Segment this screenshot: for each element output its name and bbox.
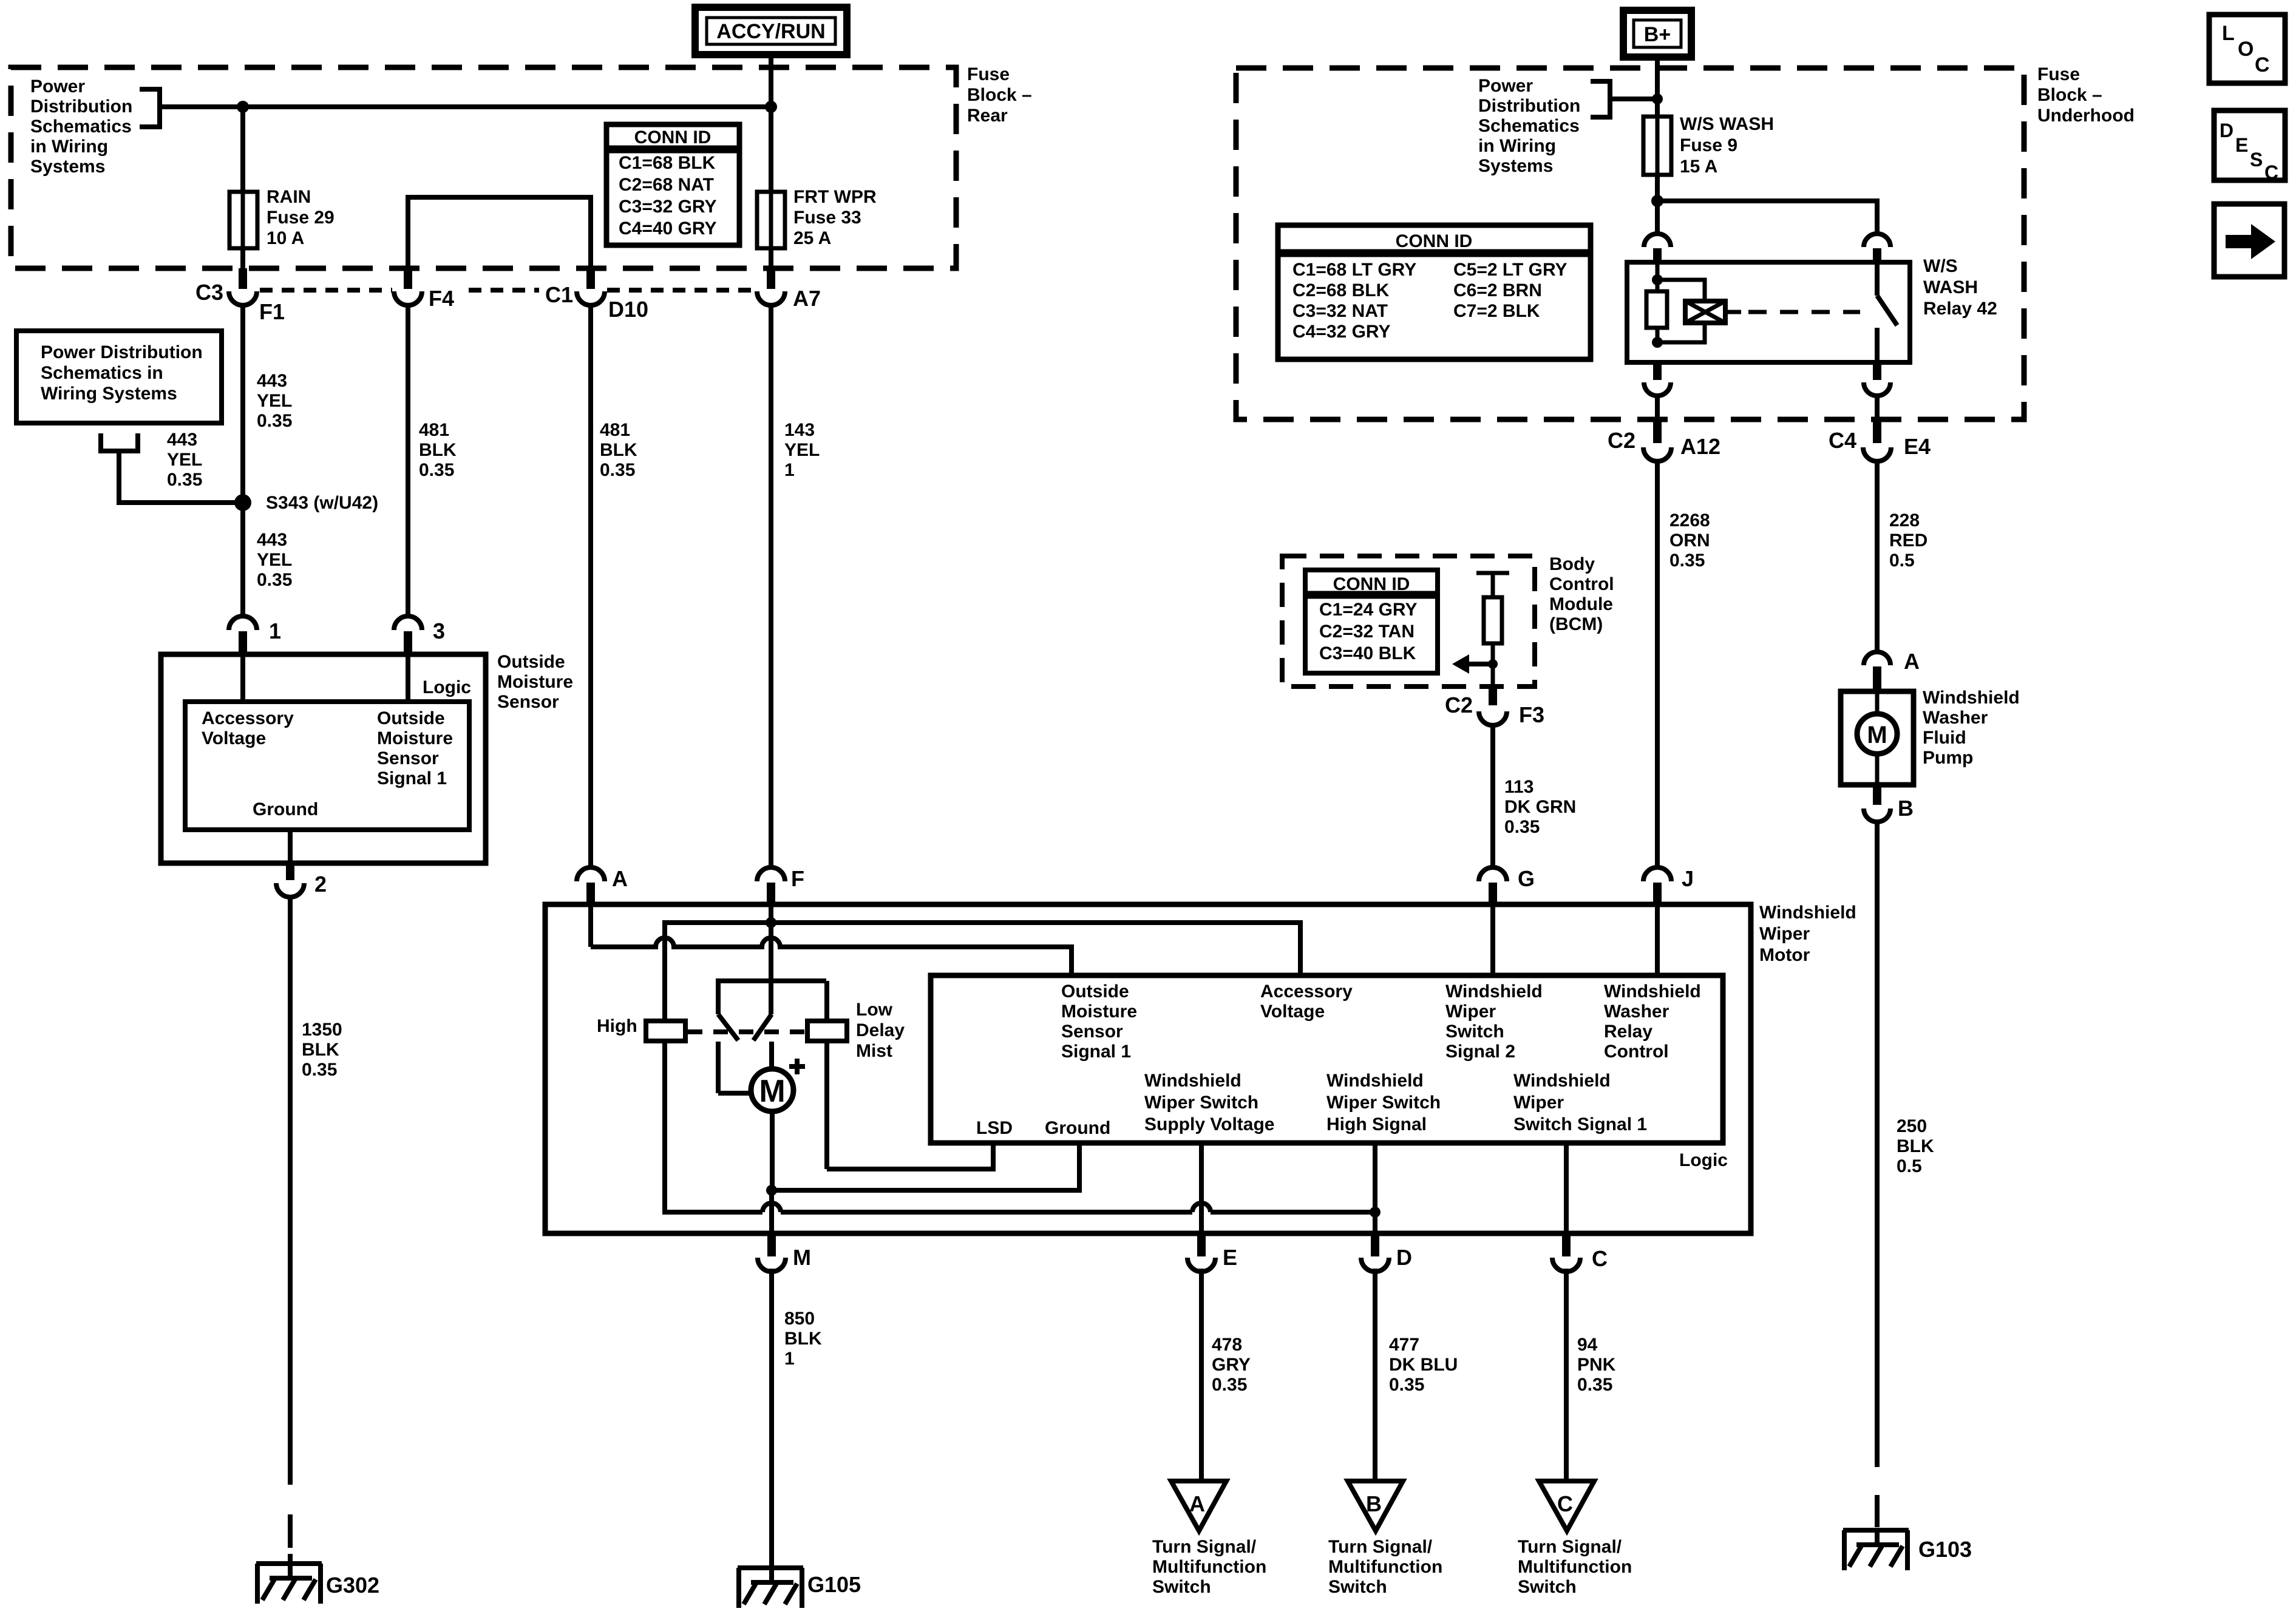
svg-text:Distribution: Distribution xyxy=(30,97,132,117)
svg-text:ORN: ORN xyxy=(1669,531,1710,551)
wire: F4 to sensor pin 3 (481 BLK) xyxy=(406,303,410,617)
svg-text:Sensor: Sensor xyxy=(497,692,559,712)
svg-text:B+: B+ xyxy=(1644,23,1671,46)
BCM internal arrow (to logic) xyxy=(1452,654,1493,674)
pin name: Ground (logic) xyxy=(1045,1118,1110,1138)
pin name: Ground (sensor) xyxy=(253,799,318,819)
svg-text:CONN ID: CONN ID xyxy=(1396,231,1473,251)
svg-text:YEL: YEL xyxy=(784,440,820,460)
svg-text:Pump: Pump xyxy=(1923,748,1973,768)
svg-text:Multifunction: Multifunction xyxy=(1152,1557,1266,1577)
wire: relay switch to C4 xyxy=(1864,362,1890,422)
wire: C4/E4 to washer pump (228 RED) xyxy=(1875,461,1880,652)
wire: C1/D10 to motor pin A (481 BLK) xyxy=(588,303,593,617)
label: Low Delay Mist xyxy=(856,1000,905,1061)
pin name: Windshield Wiper Switch High Signal xyxy=(1326,1071,1441,1134)
svg-text:High Signal: High Signal xyxy=(1326,1114,1427,1134)
svg-text:G302: G302 xyxy=(326,1573,379,1598)
pin name: Accessory Voltage (logic) xyxy=(1260,981,1353,1022)
junction: coil top xyxy=(1652,274,1663,285)
wire label 143 YEL 1 (A7) xyxy=(784,420,820,480)
fuse block underhood (dashed enclosure) xyxy=(1236,68,2024,419)
label: Turn Signal/Multifunction Switch (B) xyxy=(1328,1537,1442,1597)
junction: BCM sense xyxy=(1488,659,1498,669)
svg-text:2: 2 xyxy=(314,872,327,897)
wire: pin G to logic switch signal 2 xyxy=(1490,904,1495,975)
svg-text:Delay: Delay xyxy=(856,1020,905,1040)
connector C4/E4 xyxy=(1863,422,1891,461)
wire: switch signal 1 to pin C xyxy=(1564,1143,1569,1233)
svg-text:C7=2 BLK: C7=2 BLK xyxy=(1453,301,1540,321)
svg-text:Wiper: Wiper xyxy=(1445,1002,1496,1022)
svg-text:C4=40 GRY: C4=40 GRY xyxy=(619,219,716,239)
pin label B (pump) xyxy=(1898,796,1914,821)
svg-text:Voltage: Voltage xyxy=(202,728,266,748)
wire: B+ to fuse 9 xyxy=(1655,57,1660,117)
svg-text:WASH: WASH xyxy=(1923,277,1978,297)
svg-text:Wiper Switch: Wiper Switch xyxy=(1144,1093,1258,1113)
svg-text:Outside: Outside xyxy=(1061,981,1129,1002)
svg-text:BLK: BLK xyxy=(1897,1136,1934,1156)
connector pin A (washer pump) xyxy=(1864,652,1890,690)
pin name: Windshield Washer Relay Control xyxy=(1604,981,1701,1062)
svg-text:YEL: YEL xyxy=(257,391,292,411)
svg-text:Supply Voltage: Supply Voltage xyxy=(1144,1114,1274,1134)
svg-text:Moisture: Moisture xyxy=(377,728,453,748)
svg-text:C: C xyxy=(2255,53,2270,76)
svg-text:D: D xyxy=(2220,120,2233,141)
pin label F3 xyxy=(1519,702,1544,727)
pin label F1 xyxy=(259,299,285,324)
svg-text:Underhood: Underhood xyxy=(2037,106,2135,126)
wire: branch to relay switch side xyxy=(1657,201,1877,234)
svg-text:S343 (w/U42): S343 (w/U42) xyxy=(266,493,378,513)
nav box arrow xyxy=(2214,204,2284,277)
wire: pin E to turn signal switch (478 GRY) xyxy=(1199,1269,1204,1481)
label: Windshield Washer Fluid Pump xyxy=(1923,688,2020,768)
label: Body Control Module (BCM) xyxy=(1549,554,1614,634)
wire: low branch through resistor xyxy=(824,981,829,1169)
mechanical link (dashed) high-low xyxy=(688,1029,807,1034)
svg-text:478: 478 xyxy=(1212,1335,1242,1355)
svg-text:Wiring Systems: Wiring Systems xyxy=(41,384,177,404)
junction: B+ tap xyxy=(1652,93,1663,104)
fuse block rear (dashed enclosure) xyxy=(11,67,956,268)
wire label 1350 BLK 0.35 xyxy=(302,1020,342,1080)
wire: F to commutator xyxy=(769,923,773,1014)
connector pin 2 (moisture sensor ground) xyxy=(276,830,304,897)
connector line C1-A7 (dashed) xyxy=(607,288,755,293)
wire label 443 YEL 0.35 (upper) xyxy=(257,371,292,431)
svg-text:G: G xyxy=(1518,866,1535,891)
nav box LOC xyxy=(2209,15,2285,83)
svg-text:CONN ID: CONN ID xyxy=(1333,574,1410,594)
value label: RAIN Fuse 29 10 A xyxy=(267,187,335,248)
svg-text:Schematics: Schematics xyxy=(1478,116,1580,136)
svg-text:1: 1 xyxy=(269,619,281,643)
pin label D10 xyxy=(608,297,648,322)
wire label 443 YEL 0.35 (lower) xyxy=(257,530,292,590)
wire: jumper F4 to C1 inside fuse block xyxy=(408,197,591,271)
wire: LSD to low branch xyxy=(827,1143,993,1169)
junction: motor ground xyxy=(766,1185,777,1196)
junction: F wire / accessory voltage feed xyxy=(766,917,776,928)
svg-text:B: B xyxy=(1366,1491,1382,1516)
relay coil (solenoid) xyxy=(1657,280,1725,342)
svg-text:Wiper: Wiper xyxy=(1759,924,1810,944)
svg-text:Switch: Switch xyxy=(1328,1577,1387,1597)
svg-text:Outside: Outside xyxy=(497,652,565,672)
svg-text:Washer: Washer xyxy=(1604,1002,1669,1022)
svg-text:Sensor: Sensor xyxy=(1061,1022,1123,1042)
svg-text:Fuse: Fuse xyxy=(2037,64,2080,84)
label: Logic (sensor) xyxy=(423,677,471,697)
pin label A12 xyxy=(1680,434,1720,459)
svg-text:A12: A12 xyxy=(1680,434,1720,459)
wire: supply voltage to pin E xyxy=(1199,1143,1204,1233)
svg-text:C2: C2 xyxy=(1608,428,1635,453)
logic box (wiper motor) xyxy=(931,975,1723,1143)
svg-text:in Wiring: in Wiring xyxy=(1478,136,1556,156)
wire label 481 BLK 0.35 (F4) xyxy=(419,420,457,480)
svg-text:443: 443 xyxy=(257,371,287,391)
wire: F3 to motor pin G (113 DK GRN) xyxy=(1490,725,1495,868)
pin label M xyxy=(793,1245,811,1270)
svg-text:Turn Signal/: Turn Signal/ xyxy=(1518,1537,1622,1557)
svg-text:BLK: BLK xyxy=(419,440,457,460)
svg-text:W/S: W/S xyxy=(1923,256,1958,276)
svg-text:Switch: Switch xyxy=(1152,1577,1211,1597)
svg-text:F1: F1 xyxy=(259,299,285,324)
svg-text:443: 443 xyxy=(167,430,197,450)
svg-text:C3=40 BLK: C3=40 BLK xyxy=(1319,643,1416,663)
wire: ACCY/RUN to bus xyxy=(769,55,773,107)
svg-text:0.35: 0.35 xyxy=(1577,1375,1612,1395)
junction: fuse 33 tap xyxy=(765,101,777,113)
ground G302 xyxy=(256,1564,322,1604)
svg-text:443: 443 xyxy=(257,530,287,550)
label: Power Distribution Schematics in Wiring Systems (rear) xyxy=(30,76,132,177)
pin name: Outside Moisture Sensor Signal 1 (logic) xyxy=(1061,981,1137,1062)
junction: high signal / pin D xyxy=(1370,1207,1381,1218)
pin label 1 xyxy=(269,619,281,643)
svg-text:C1=68 BLK: C1=68 BLK xyxy=(619,153,716,173)
pin name: Windshield Wiper Switch Supply Voltage xyxy=(1144,1071,1274,1134)
splice S343 (w/U42) xyxy=(234,494,251,511)
svg-text:Turn Signal/: Turn Signal/ xyxy=(1328,1537,1433,1557)
wire label 443 YEL 0.35 (fork) xyxy=(167,430,202,490)
svg-text:YEL: YEL xyxy=(257,550,292,570)
pin label E4 xyxy=(1904,434,1931,459)
svg-text:C: C xyxy=(1592,1246,1608,1271)
wire: accessory feed bus y=176 xyxy=(160,104,771,109)
svg-text:C3=32 NAT: C3=32 NAT xyxy=(1292,301,1388,321)
pin label C2 (A12) xyxy=(1608,428,1635,453)
svg-text:in Wiring: in Wiring xyxy=(30,137,108,157)
svg-text:C3: C3 xyxy=(195,280,223,305)
label: High xyxy=(597,1016,637,1036)
svg-text:BLK: BLK xyxy=(302,1040,339,1060)
svg-text:Signal 2: Signal 2 xyxy=(1445,1042,1515,1062)
svg-text:Fluid: Fluid xyxy=(1923,728,1966,748)
relay coil resistor xyxy=(1646,262,1667,342)
svg-text:A: A xyxy=(612,866,628,891)
label: W/S WASH Relay 42 xyxy=(1923,256,1997,319)
svg-text:C3=32 GRY: C3=32 GRY xyxy=(619,197,716,217)
label: Windshield Wiper Motor xyxy=(1759,903,1856,965)
off-page connector fork (to power distribution) xyxy=(98,433,238,503)
ground label G105 xyxy=(807,1572,861,1597)
wire: pin C to turn signal switch (94 PNK) xyxy=(1564,1269,1569,1481)
svg-text:Power: Power xyxy=(30,76,85,97)
svg-text:Control: Control xyxy=(1604,1042,1669,1062)
svg-text:Schematics in: Schematics in xyxy=(41,363,163,383)
splice label S343 (w/U42) xyxy=(266,493,378,513)
resistor: High speed brush xyxy=(646,1021,685,1041)
svg-text:Moisture: Moisture xyxy=(1061,1002,1137,1022)
connector pin F (wiper motor) xyxy=(757,867,785,903)
svg-text:Switch: Switch xyxy=(1518,1577,1577,1597)
connector F4 xyxy=(394,268,422,305)
svg-text:Sensor: Sensor xyxy=(377,748,439,768)
pin label A (pump) xyxy=(1904,649,1920,674)
wire: high signal to pin D xyxy=(1373,1143,1377,1233)
sensor logic box xyxy=(185,702,469,830)
svg-text:Fuse 33: Fuse 33 xyxy=(793,208,861,228)
label: Turn Signal/Multifunction Switch (A) xyxy=(1152,1537,1266,1597)
wire label 2268 ORN 0.35 xyxy=(1669,510,1710,571)
svg-text:0.35: 0.35 xyxy=(419,460,454,480)
svg-text:Wiper: Wiper xyxy=(1513,1093,1564,1113)
svg-text:C2=68 BLK: C2=68 BLK xyxy=(1292,280,1390,300)
conn id table (BCM) xyxy=(1305,570,1438,673)
connector C2/F3 (BCM) xyxy=(1479,686,1507,725)
pin label 2 xyxy=(314,872,327,897)
svg-text:Windshield: Windshield xyxy=(1759,903,1856,923)
pin name: LSD xyxy=(976,1118,1013,1138)
svg-text:M: M xyxy=(759,1074,785,1109)
connector C3/F1 xyxy=(229,268,257,305)
wire label 228 RED 0.5 xyxy=(1889,510,1927,571)
svg-text:W/S WASH: W/S WASH xyxy=(1680,114,1774,134)
pin label J xyxy=(1682,866,1694,891)
pin name: Windshield Wiper Switch Signal 2 xyxy=(1445,981,1543,1062)
svg-text:Logic: Logic xyxy=(1679,1150,1728,1170)
ground G105 xyxy=(738,1568,803,1608)
bracket: power distribution tie (underhood) xyxy=(1591,81,1610,117)
wire label 94 PNK 0.35 xyxy=(1577,1335,1616,1395)
motor brush contacts xyxy=(718,1042,772,1093)
wire label 113 DK GRN 0.35 xyxy=(1504,777,1576,837)
windshield washer fluid pump (box) xyxy=(1841,691,1914,785)
svg-text:Fuse 9: Fuse 9 xyxy=(1680,135,1737,155)
svg-text:1350: 1350 xyxy=(302,1020,342,1040)
wire: RAIN fuse to connector C3 xyxy=(240,248,245,271)
svg-text:Multifunction: Multifunction xyxy=(1328,1557,1442,1577)
svg-text:RAIN: RAIN xyxy=(267,187,311,207)
svg-text:Mist: Mist xyxy=(856,1041,892,1061)
label: Fuse Block - Rear xyxy=(967,64,1032,126)
wire: pump to G103 (250 BLK) xyxy=(1875,822,1880,1527)
pin name: Outside Moisture Sensor Signal 1 (sensor) xyxy=(377,708,453,788)
svg-text:PNK: PNK xyxy=(1577,1355,1616,1375)
junction: coil bottom xyxy=(1652,337,1663,348)
pin label C4 xyxy=(1829,428,1856,453)
svg-text:Control: Control xyxy=(1549,574,1614,594)
wire: C2/A12 to motor pin J (2268 ORN) xyxy=(1655,461,1660,868)
svg-text:481: 481 xyxy=(419,420,449,440)
svg-text:0.35: 0.35 xyxy=(1212,1375,1247,1395)
svg-text:C: C xyxy=(2264,161,2278,183)
svg-text:(BCM): (BCM) xyxy=(1549,614,1603,634)
svg-text:S: S xyxy=(2250,149,2263,171)
connector pin D xyxy=(1361,1236,1389,1272)
svg-text:Washer: Washer xyxy=(1923,708,1988,728)
pin label C3 xyxy=(195,280,223,305)
connector pin M (motor) xyxy=(758,1236,786,1272)
wire: branch to relay coil side xyxy=(1655,201,1660,234)
svg-text:Fuse: Fuse xyxy=(967,64,1010,84)
svg-text:477: 477 xyxy=(1389,1335,1419,1355)
outside moisture sensor (component box) xyxy=(161,654,486,863)
relay terminal (coil, top) xyxy=(1644,234,1671,261)
motor M (wiper) xyxy=(751,1069,793,1111)
svg-text:0.35: 0.35 xyxy=(1504,817,1540,837)
pin label G xyxy=(1518,866,1535,891)
wire: bus to FRT WPR fuse xyxy=(769,107,773,192)
svg-text:Moisture: Moisture xyxy=(497,672,573,692)
svg-text:Relay 42: Relay 42 xyxy=(1923,299,1997,319)
svg-text:0.35: 0.35 xyxy=(257,411,292,431)
pin label F4 xyxy=(429,286,454,311)
svg-text:Relay: Relay xyxy=(1604,1022,1652,1042)
fuse RAIN Fuse 29 10 A xyxy=(229,192,257,248)
svg-text:Windshield: Windshield xyxy=(1923,688,2020,708)
svg-text:J: J xyxy=(1682,866,1694,891)
label: Outside Moisture Sensor xyxy=(497,652,573,712)
svg-text:228: 228 xyxy=(1889,510,1920,531)
svg-text:G105: G105 xyxy=(807,1572,861,1597)
junction: relay feed split xyxy=(1651,195,1663,207)
wire: pin A to logic OMS signal (inside motor) xyxy=(591,904,1072,975)
svg-text:F: F xyxy=(791,866,804,891)
svg-text:2268: 2268 xyxy=(1669,510,1710,531)
svg-text:Rear: Rear xyxy=(967,106,1008,126)
svg-text:Outside: Outside xyxy=(377,708,445,728)
svg-text:C: C xyxy=(1557,1491,1573,1516)
connector pin 3 (moisture sensor) xyxy=(394,616,422,653)
svg-text:M: M xyxy=(793,1245,811,1270)
wire: A7 to motor pin F (143 YEL) xyxy=(769,303,773,868)
svg-text:1: 1 xyxy=(784,460,795,480)
svg-text:C4=32 GRY: C4=32 GRY xyxy=(1292,322,1390,342)
relay W/S WASH Relay 42 (box) xyxy=(1627,262,1910,362)
wire: relay coil to C2 xyxy=(1644,362,1671,422)
nav box DESC xyxy=(2214,110,2285,183)
wire label 850 BLK 1 xyxy=(784,1309,822,1369)
svg-text:94: 94 xyxy=(1577,1335,1598,1355)
wire: logic ground to motor junction xyxy=(772,1143,1079,1190)
node B+ (power tag) xyxy=(1623,10,1691,57)
svg-text:Windshield: Windshield xyxy=(1144,1071,1241,1091)
svg-text:Switch Signal 1: Switch Signal 1 xyxy=(1513,1114,1647,1134)
svg-text:Body: Body xyxy=(1549,554,1595,574)
wire label 477 DK BLU 0.35 xyxy=(1389,1335,1458,1395)
wire: pin 2 to G302 (1350 BLK) xyxy=(288,897,293,1577)
svg-text:Turn Signal/: Turn Signal/ xyxy=(1152,1537,1257,1557)
connector pin B (washer pump) xyxy=(1864,785,1890,822)
svg-text:C2: C2 xyxy=(1445,693,1473,717)
node ACCY/RUN (power tag) xyxy=(695,7,847,55)
pin label F xyxy=(791,866,804,891)
connector C2/A12 xyxy=(1643,422,1671,461)
svg-text:CONN ID: CONN ID xyxy=(634,127,712,147)
svg-text:Systems: Systems xyxy=(30,157,105,177)
ground label G103 xyxy=(1918,1537,1972,1562)
svg-text:Fuse 29: Fuse 29 xyxy=(267,208,335,228)
svg-text:Block –: Block – xyxy=(2037,85,2102,105)
svg-text:Module: Module xyxy=(1549,594,1613,614)
windshield wiper motor (component box) xyxy=(545,904,1751,1233)
relay terminal (switch, top) xyxy=(1864,234,1890,261)
svg-text:BLK: BLK xyxy=(600,440,637,460)
wire: fuse 33 to connector A7 xyxy=(769,248,773,271)
svg-text:DK GRN: DK GRN xyxy=(1504,797,1576,817)
svg-text:L: L xyxy=(2222,22,2235,45)
svg-text:C2=68 NAT: C2=68 NAT xyxy=(619,175,714,195)
ground label G302 xyxy=(326,1573,379,1598)
svg-text:C4: C4 xyxy=(1829,428,1856,453)
svg-text:Windshield: Windshield xyxy=(1326,1071,1424,1091)
svg-text:E: E xyxy=(1223,1245,1237,1270)
label: Logic (motor) xyxy=(1679,1150,1728,1170)
svg-text:C1: C1 xyxy=(545,282,573,307)
svg-text:0.35: 0.35 xyxy=(167,470,202,490)
svg-text:Logic: Logic xyxy=(423,677,471,697)
wire: pin J to logic washer relay control xyxy=(1655,904,1660,975)
motor M (washer pump) xyxy=(1857,714,1897,754)
wire: motor to ground junction xyxy=(772,1111,772,1233)
conn id table (fuse block rear) xyxy=(606,124,739,245)
svg-text:Windshield: Windshield xyxy=(1513,1071,1611,1091)
svg-text:Ground: Ground xyxy=(253,799,318,819)
label: Fuse Block - Underhood xyxy=(2037,64,2135,126)
junction: rain fuse tap xyxy=(237,101,249,113)
svg-text:D: D xyxy=(1396,1245,1412,1270)
svg-text:0.35: 0.35 xyxy=(1669,551,1705,571)
svg-text:15 A: 15 A xyxy=(1680,157,1717,177)
connector A7 xyxy=(757,268,785,305)
body control module (dashed box) xyxy=(1282,556,1535,686)
svg-text:Low: Low xyxy=(856,1000,893,1020)
svg-text:Switch: Switch xyxy=(1445,1022,1504,1042)
svg-text:RED: RED xyxy=(1889,531,1927,551)
off-page triangle A xyxy=(1171,1481,1226,1531)
svg-text:0.35: 0.35 xyxy=(1389,1375,1424,1395)
polarity + xyxy=(789,1059,805,1074)
connector pin G (wiper motor) xyxy=(1479,867,1507,903)
svg-text:Power Distribution: Power Distribution xyxy=(41,342,203,362)
svg-text:0.35: 0.35 xyxy=(600,460,635,480)
pin label A xyxy=(612,866,628,891)
wire: fuse 9 to relay branch xyxy=(1655,175,1660,201)
svg-text:1: 1 xyxy=(784,1349,795,1369)
connector pin 1 (moisture sensor) xyxy=(229,616,257,653)
fuse FRT WPR Fuse 33 25 A xyxy=(757,192,785,248)
svg-text:F3: F3 xyxy=(1519,702,1544,727)
svg-text:A: A xyxy=(1904,649,1920,674)
svg-text:113: 113 xyxy=(1504,777,1533,797)
